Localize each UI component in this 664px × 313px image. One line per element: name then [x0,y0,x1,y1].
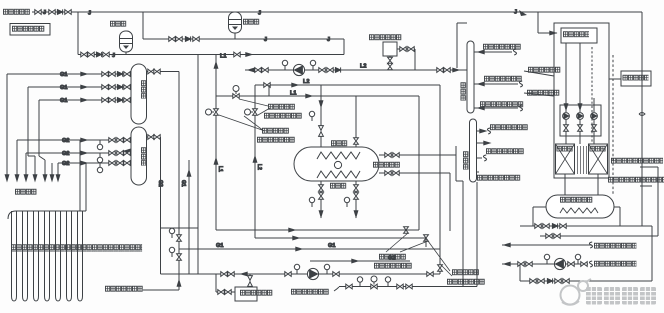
arrow [81,151,87,155]
wire G1 line y=249 [179,248,440,250]
valve [221,272,227,277]
wire G1 branch1 [7,73,131,75]
svg-text:G1: G1 [328,243,335,249]
wire makeup line y=55 [78,54,344,56]
leader lines to seasonal labels upper [219,99,270,131]
valve [518,262,524,267]
svg-text:L2: L2 [360,64,367,70]
wire header riser right B [79,140,81,211]
break [513,49,516,55]
wire DHW supply y=245 [502,244,592,246]
valve [65,10,71,15]
text 冬季开，夏季关 upper [264,113,302,119]
tank room outer box [554,23,609,178]
valve [177,235,182,241]
text 定压罐 tank2 label [243,19,259,25]
vertical text 集水器 [461,82,467,101]
wire bypass y=281 [520,280,652,282]
wire drop x=52 [51,163,53,181]
dashed riser right [612,55,614,195]
valve [228,272,234,277]
arrow [480,129,486,133]
arrow [296,247,302,251]
motor valve x=216 [206,109,219,115]
text 电子水处理器 label top [369,34,401,40]
valve [560,224,566,229]
text 接新风机组供水 [490,124,528,130]
wire stub y=186 [640,185,652,187]
valve [154,69,160,74]
arrow [246,53,252,57]
arrow [319,211,323,217]
text 接自来水管 city water inlet label [3,9,30,15]
wire tank downpipe 2 [579,43,581,112]
vertical label 集水器 [141,147,147,166]
pump [577,113,584,120]
svg-text:G1: G1 [216,243,223,249]
break [487,128,490,134]
valve [109,85,115,90]
wire drop [532,207,534,226]
check valve [57,9,62,14]
gauge [169,247,174,257]
motor valve x=255 [245,109,258,115]
electronic water processor box top [383,42,397,56]
wire tank header y=39 [143,38,344,40]
wire treater line y=292 [216,291,235,293]
valve [327,68,333,73]
vertical text 分水器 [463,151,469,170]
valve [169,37,175,42]
valve [285,272,291,277]
wire stub x=426 [425,238,427,247]
arrow down [5,175,9,181]
valve [124,161,130,166]
text 冬季关，夏季开 second [257,137,295,143]
valve [124,85,130,90]
text 环路集管 upper [15,189,37,195]
check [552,223,557,228]
wire riser x=28 [27,87,29,156]
wire right riser x=652 [651,226,653,281]
valve [225,290,231,295]
svg-text:J: J [264,37,267,43]
wire condenser out bottom y=173 [379,172,450,174]
check valve pair [319,126,324,137]
valve on riser x=440 [438,265,443,271]
watermark text 暖通南社 [586,287,656,305]
valve [333,272,339,277]
valve [427,272,433,277]
arrow down [56,175,60,181]
valve [255,68,261,73]
valve [581,262,587,267]
U-tube 5 [56,211,61,301]
wire riser x=160 [160,137,162,274]
valve [564,125,569,131]
valve [554,234,560,239]
valve [148,135,154,140]
U-tube 4 [45,211,50,301]
text 二次水循环泵 [527,90,559,96]
valve [393,171,399,176]
valve [543,224,549,229]
text 蓄热供水箱 [563,31,589,37]
wire L1 line y=96 [216,95,419,97]
wire bypass drop [519,264,521,281]
wire supply branch 1 [477,130,487,132]
break [519,105,522,111]
valve [117,138,123,143]
wire G2 branch1 [17,139,131,141]
wire drop to treater x=216 [215,274,217,292]
text 定压罐 tank1 label [110,21,126,27]
wire manifold top stub A [147,71,160,73]
text 冬夏转换阀 second [262,128,289,134]
gauge [97,163,102,173]
wire manifold2 top stub [147,136,161,138]
valve [88,52,94,57]
arrow [550,31,556,35]
wire box top stem [249,274,251,287]
wire jog [456,180,463,182]
text 接毛细管网箱回水 [480,101,523,107]
wire drop x=17 [16,140,18,181]
text 室内毛细管网辐射供水箱 [608,177,664,183]
valve [124,98,130,103]
valve [81,52,87,57]
valve [538,279,544,284]
wire drop x=26 [25,153,27,181]
wire riser x=321 [320,85,322,147]
gauge [309,111,314,121]
svg-text:J: J [327,37,330,43]
wire G1 branch2 [28,86,131,88]
valve [555,279,561,284]
valve [109,72,115,77]
wire riser x=456 [455,146,457,181]
wire riser x=255 [254,85,256,238]
valve [444,68,450,73]
break [483,155,486,161]
gauge [97,153,102,163]
wire header riser right A [85,163,87,211]
arrow up [253,156,257,162]
text 向蓄热水箱 [373,162,400,168]
svg-text:G1: G1 [60,98,67,104]
valve [124,72,130,77]
gauge [169,228,174,238]
text 冬夏转换阀 bottom-2 [452,269,479,275]
valve [319,185,324,191]
wire drop [619,207,621,226]
pipe break mark on riser [639,113,645,116]
arrow down [319,101,323,107]
valve [388,63,393,69]
text 接辐射系统回水 [484,76,522,82]
valve [35,10,41,15]
wire drop x=58 [57,163,59,181]
arrow down [50,175,54,181]
wire drop x=463 [462,181,464,287]
wire drop x=415 [414,49,416,70]
dashed internal line [591,47,593,143]
wire condenser inlet riser x=356 [355,96,357,147]
valve [319,68,325,73]
U-tube 7 [78,211,83,301]
expansion tank 定压罐 #1 [120,31,133,52]
svg-text:G2: G2 [62,138,69,144]
check valve [185,36,190,41]
arrow up [214,62,218,68]
text 接生活热水回水管 [594,261,636,267]
wire drop x=143 [142,12,144,39]
valve [102,72,108,77]
heat pump unit vessel [294,147,379,181]
text 辅助电加热器 [560,197,592,203]
valve [354,185,359,191]
valve [109,161,115,166]
leader lines seasonal labels bottom [386,233,452,276]
check [117,71,122,76]
text 接地源换热设备 right [291,289,329,295]
svg-text:G1: G1 [60,72,67,78]
storage tank 蓄热供水箱 box [561,28,597,43]
valve [124,138,130,143]
wire riser x=189 [188,160,190,274]
pump [293,64,304,75]
supply manifold bar 分水器 [470,119,477,182]
svg-text:J: J [112,53,115,59]
break [589,242,592,248]
collection manifold cylinder 集水器 [131,127,147,185]
arrow down [43,175,47,181]
wire G2 branch2 [26,152,131,154]
arrow [453,68,459,72]
valve [109,138,115,143]
wire G2 branch3 [58,162,131,164]
valve [346,284,352,289]
wire supply branch 3 [477,171,480,173]
wire DHW return y=264 [502,263,588,265]
wire heater right port [614,206,620,208]
wire drop x=45 [44,160,46,181]
wire line y=238 [255,237,426,239]
arrow [478,50,484,54]
source pump [307,268,318,279]
wire riser x=198 [197,55,199,275]
wire main line continue [345,273,440,275]
arrow [81,138,87,142]
svg-text:L2: L2 [256,164,262,170]
motor valve on L1 [233,86,239,99]
text 接生活热水供水管 [594,243,636,249]
gauge [575,254,580,264]
gauge [544,254,549,264]
wire into tank [538,32,557,34]
wire riser x=457 [456,23,458,68]
svg-text:J: J [43,10,46,16]
wire riser x=419 [418,96,420,230]
arrow [564,104,568,110]
pump [554,258,565,269]
arrow [478,106,484,110]
wire hx2 drop [597,174,599,195]
return manifold bar 集水器 [467,41,474,113]
text 地源热泵U型埋地管换热器—环路集管 [11,244,142,252]
wire degasser link [609,78,621,80]
svg-text:L1: L1 [220,54,227,60]
wire condenser out top y=155 [379,154,456,156]
wire box stem [389,56,391,70]
arrow [504,262,510,266]
text 冬夏转换阀 upper [268,104,295,110]
arrow jog at J [519,10,527,16]
gauge [357,277,362,287]
heat exchanger box 2 [589,144,608,174]
valve [578,125,583,131]
pump [591,113,598,120]
arrow [293,236,299,240]
text 冷凝器 label [331,140,347,146]
expansion tank 定压罐 #2 [229,12,242,33]
valve [592,125,597,131]
wire return branch 3 [474,107,518,109]
wire right riser x=658 [657,167,659,236]
text 真空脱气机 [623,75,649,81]
connection hook [334,287,339,291]
wire drop x=477 [476,182,478,287]
svg-text:L1: L1 [290,91,297,97]
gauge [309,197,314,207]
wire riser x=216 [215,55,217,230]
wire jumper x=269 [268,85,270,96]
text 电子水处理器 bottom [240,290,272,296]
wire line y=230 [216,229,419,231]
wire jog [28,155,35,157]
valve [424,235,429,241]
wire tank2 stem [234,33,236,39]
arrow [352,259,358,263]
arrow down [15,175,19,181]
wire L2 line y=85 [255,84,440,86]
wire drop x=35 [34,156,36,181]
gauge [385,277,390,287]
evaporator coil [317,171,360,178]
arrow [241,272,247,276]
arrow [484,141,490,145]
valve [109,98,115,103]
condenser coil [317,152,360,159]
svg-text:J: J [258,11,261,17]
wire stub y=167 [640,166,658,168]
pump manifold box [560,105,601,136]
check [117,97,122,102]
valve [354,138,359,144]
valve [264,83,270,88]
svg-text:G2: G2 [157,180,163,187]
valve [388,57,393,63]
arrow up [187,170,191,176]
arrow [292,83,298,87]
wire G2 line y=261 [310,260,410,262]
relief pair [248,276,253,287]
wire stub [457,22,467,24]
wire box right stub [397,48,415,50]
valve [109,151,115,156]
valve [354,193,359,199]
valve [218,290,224,295]
U-tube 1 [12,211,17,301]
arrow [81,85,87,89]
wire drop x=538 [537,12,539,33]
valve [154,135,160,140]
arrow up [177,280,181,286]
arrow [306,94,312,98]
wire leader left [143,289,179,291]
wire leader makeup pump [524,71,554,76]
valve [148,69,154,74]
wire [565,119,567,144]
wire [579,119,581,144]
text 冬季开，夏季关 bottom-1 [374,263,412,269]
valve [124,151,130,156]
text 接新风机组回水 [483,44,521,50]
wire riser x=440 [439,85,441,274]
valve [177,254,182,260]
check valve [96,52,101,57]
arrow [289,228,295,232]
capillary bundle [578,146,587,174]
valve [117,161,123,166]
text 接毛细管网箱供水 [477,175,520,181]
valve [102,85,108,90]
wire evap pipe x=321 [320,181,322,218]
compressor circle [334,161,341,168]
check valve [335,67,340,72]
gauge [310,60,315,70]
svg-text:L1: L1 [217,166,223,172]
heat exchanger box 1 [556,144,575,174]
text 接辐射系统供水 [486,148,524,154]
wire leader circ pump [524,93,554,96]
wire drop x=78 [77,12,79,55]
valve [117,151,123,156]
valve [563,279,569,284]
wire hx1 drop [564,174,566,195]
svg-text:G1: G1 [180,180,186,187]
arrow [81,98,87,102]
text 二次水补水泵 [528,67,560,73]
wire drain stub [123,150,131,152]
valve [530,279,536,284]
break [589,261,592,267]
wire right riser x=642 [641,12,643,226]
wire tank1 stem [125,52,127,55]
check [547,278,552,283]
gauge [344,197,349,207]
wire stub to riser [160,71,179,73]
arrow up [214,158,218,164]
wire evap pipe x=356 [355,181,357,218]
wire pump line y=70 [245,69,467,71]
arrow [248,68,254,72]
valve [385,171,391,176]
arrow down [24,175,28,181]
wire jog2 [39,156,45,160]
wire supply stub [477,142,491,144]
watermark logo [561,279,592,305]
